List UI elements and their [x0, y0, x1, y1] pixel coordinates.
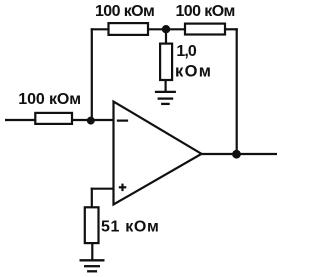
wire feedback left vertical — [91, 28, 93, 120]
wire input left — [5, 119, 35, 121]
svg-text:100 кОм: 100 кОм — [176, 3, 236, 20]
wire R2 to node B and node B to R3 — [148, 28, 185, 30]
wire R1 to op-amp inverting input — [72, 119, 114, 121]
node C junction dot output — [232, 150, 241, 159]
resistor R2 100kOm body — [109, 23, 149, 35]
op-amp minus sign — [117, 119, 128, 121]
op-amp plus sign — [119, 184, 127, 192]
svg-text:100 кОм: 100 кОм — [95, 3, 155, 20]
resistor R4 1.0kOm body — [160, 44, 172, 80]
ground GND2 — [80, 260, 105, 271]
svg-text:кОм: кОм — [175, 62, 211, 80]
wire R4 to ground — [165, 80, 167, 92]
resistor R3 100kOm body — [185, 24, 225, 35]
wire node B down to R4 — [165, 29, 167, 43]
ground GND1 — [155, 92, 176, 104]
op-amp U1 triangle — [114, 102, 202, 205]
svg-text:100 кОм: 100 кОм — [18, 91, 81, 108]
wire R5 to ground — [91, 243, 93, 260]
svg-text:51 кОм: 51 кОм — [101, 219, 159, 236]
wire output — [202, 153, 278, 155]
svg-text:1,0: 1,0 — [176, 43, 196, 60]
resistor R5 51kOm body — [85, 207, 99, 243]
wire right vertical feedback — [236, 28, 238, 154]
node A junction dot inverting input — [87, 117, 95, 125]
wire top horizontal left segment — [91, 28, 109, 30]
wire R3 to right corner — [225, 28, 238, 30]
wire noninverting input horizontal — [91, 188, 114, 190]
resistor R1 100kOm body — [35, 113, 72, 124]
node B junction dot top — [162, 25, 170, 33]
wire noninverting down to R5 — [91, 188, 93, 208]
